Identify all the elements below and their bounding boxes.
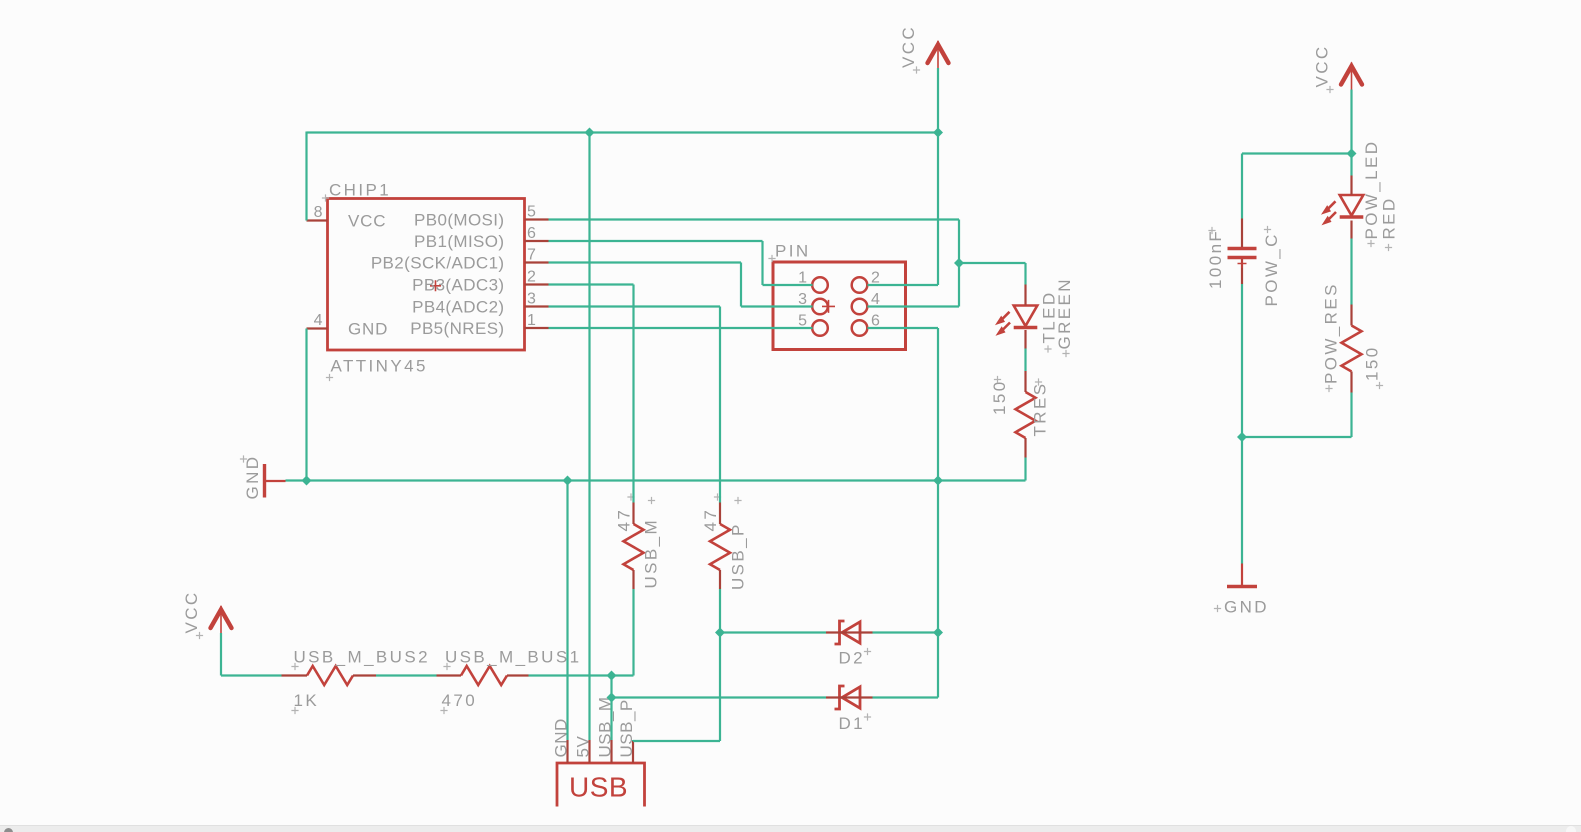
wire cap top green <box>1241 154 1243 219</box>
wire D2 row right <box>873 631 939 633</box>
cross GND left <box>240 455 247 462</box>
capacitor POW_C plates <box>1228 249 1257 258</box>
wire VCC top rail <box>307 131 939 133</box>
PIN origin cross <box>822 300 835 313</box>
svg-text:PB5(NRES): PB5(NRES) <box>410 319 504 338</box>
wire USB_M row to bus <box>529 674 634 676</box>
svg-text:USB_M_BUS2: USB_M_BUS2 <box>294 648 430 667</box>
cross D1 <box>864 713 871 720</box>
svg-text:1K: 1K <box>294 691 320 710</box>
chip origin cross <box>430 280 441 291</box>
svg-text:PB0(MOSI): PB0(MOSI) <box>414 211 505 230</box>
D2 leads <box>826 631 873 633</box>
junction 5V on VCC rail <box>585 128 595 138</box>
wire USB_P pin drop <box>632 740 634 741</box>
chip pin 1 stub <box>525 327 549 329</box>
wire LED branch down <box>1024 263 1026 285</box>
svg-text:POW_RES: POW_RES <box>1322 282 1341 384</box>
wire chip pin4 down to gnd rail <box>305 329 307 481</box>
wire VCC left to BUS2 <box>221 674 282 676</box>
junction USB GND on rail <box>563 476 573 486</box>
svg-text:150: 150 <box>990 379 1009 415</box>
wire TRES bottom green <box>1024 458 1026 481</box>
wire SCK corner down <box>740 263 742 307</box>
svg-text:D1: D1 <box>839 714 866 733</box>
wire D2 row left <box>720 631 826 633</box>
wire 47 res USB_P down <box>719 589 721 741</box>
svg-text:USB_P: USB_P <box>729 522 748 590</box>
wire VCC rail to chip pin8 <box>305 132 307 221</box>
wire ADC3 down to 47 res <box>632 285 634 503</box>
wire pin3 ADC2 horizontal <box>549 305 721 307</box>
diode D2 <box>835 621 861 644</box>
PIN pad circle 2 <box>852 277 868 293</box>
wire pin1 NRES to PIN5 <box>549 327 813 329</box>
wire pin5 MOSI horizontal <box>549 218 960 220</box>
svg-text:VCC: VCC <box>1313 44 1332 87</box>
wire VCC left arrow drop <box>220 633 222 676</box>
cross 47 USB_P <box>714 493 721 500</box>
svg-text:8: 8 <box>314 204 323 221</box>
resistor USB_P 47 <box>710 524 730 570</box>
svg-text:2: 2 <box>527 269 536 286</box>
chip pin 7 stub <box>525 261 549 263</box>
svg-text:CHIP1: CHIP1 <box>329 181 391 200</box>
diode D1 <box>835 686 861 709</box>
cross POW_C <box>1264 226 1271 233</box>
led POW_LED RED <box>1322 195 1363 224</box>
svg-text:TRES: TRES <box>1031 382 1050 437</box>
wire right rail bottom <box>1242 436 1352 438</box>
junction VCC right rail <box>1347 149 1357 159</box>
junction LED branch <box>954 258 964 268</box>
svg-text:PB4(ADC2): PB4(ADC2) <box>412 298 504 317</box>
wire cap bottom green <box>1241 284 1243 564</box>
wire POW_RES bottom green <box>1350 393 1352 438</box>
svg-text:3: 3 <box>527 291 536 308</box>
ic CHIP1 ATTINY45 body <box>328 199 525 351</box>
POW_RES top stub <box>1350 305 1352 326</box>
PIN pad circle 4 <box>852 299 868 315</box>
svg-text:D2: D2 <box>839 649 866 668</box>
junction chip GND on rail <box>302 476 312 486</box>
svg-text:VCC: VCC <box>182 590 201 633</box>
cross 470 <box>440 707 447 714</box>
bottom scrollbar strip <box>0 826 1581 832</box>
wire 5V vertical <box>588 133 590 741</box>
resistor TRES 150 <box>1016 392 1036 438</box>
cross POW_RES <box>1325 385 1332 392</box>
wire SCK into PIN3 <box>741 305 813 307</box>
wire VCC right arrow drop <box>1350 90 1352 154</box>
svg-text:ATTINY45: ATTINY45 <box>331 357 428 376</box>
wire POW_LED to POW_RES green <box>1350 239 1352 305</box>
svg-text:5: 5 <box>527 204 536 221</box>
svg-text:GND: GND <box>243 455 262 500</box>
chip pin 5 stub <box>525 218 549 220</box>
cross D2 <box>864 648 871 655</box>
svg-text:POW_LED: POW_LED <box>1362 140 1381 240</box>
cross RED <box>1385 244 1392 251</box>
cross USB_M res <box>648 497 655 504</box>
USB_M res top stub <box>632 503 634 525</box>
wire 47 res USB_M down <box>632 589 634 676</box>
svg-text:470: 470 <box>442 691 478 710</box>
svg-text:GREEN: GREEN <box>1055 277 1074 349</box>
svg-text:GND: GND <box>348 320 388 339</box>
USB pin USB_M stub <box>610 740 612 763</box>
svg-text:PB3(ADC3): PB3(ADC3) <box>412 276 504 295</box>
wire MISO corner down <box>761 241 763 285</box>
USB pin GND stub <box>566 740 568 763</box>
USB pin 5V stub <box>588 740 590 763</box>
junction USB_P D2 <box>715 628 725 638</box>
junction USB_M bus <box>607 671 617 681</box>
cross 100nF <box>1208 227 1215 234</box>
BUS2 left stub <box>282 674 308 676</box>
junction VCC arrow rail <box>933 128 943 138</box>
ground symbol (right) <box>1227 564 1257 587</box>
wire MISO into PIN1 <box>763 284 813 286</box>
svg-text:PIN: PIN <box>775 242 811 261</box>
origin cross PIN <box>768 255 775 262</box>
wire USB_M pin drop <box>610 676 612 741</box>
supply VCC arrow (bottom left) <box>211 606 232 633</box>
wire PIN2 to VCC <box>868 284 939 286</box>
svg-text:RED: RED <box>1380 196 1399 239</box>
TLED anode stub <box>1024 285 1026 306</box>
wire GND drop vertical <box>937 328 939 698</box>
wire USB_P over to pin <box>633 740 720 742</box>
chip pin 4 stub <box>307 327 328 329</box>
USB_M res bottom stub <box>632 570 634 589</box>
svg-text:150: 150 <box>1363 345 1382 381</box>
svg-text:VCC: VCC <box>899 25 918 68</box>
svg-text:100nF: 100nF <box>1206 229 1225 289</box>
svg-text:47: 47 <box>615 508 634 532</box>
POW_C bottom stub <box>1241 259 1243 284</box>
resistor USB_M_BUS1 470 <box>461 666 507 685</box>
cross VCC left <box>196 632 203 639</box>
svg-text:USB_M: USB_M <box>642 518 661 589</box>
wire D1 row right <box>873 696 939 698</box>
svg-text:6: 6 <box>527 225 536 242</box>
wire POW_LED top green <box>1350 154 1352 176</box>
supply VCC arrow (right) <box>1341 63 1362 90</box>
D1 leads <box>826 696 873 698</box>
USB_P res bottom stub <box>719 570 721 589</box>
cross VCC right <box>1326 86 1333 93</box>
BUS2 right stub <box>353 674 376 676</box>
wire PIN2 up to VCC rail <box>937 133 939 286</box>
PIN pad circle 6 <box>852 320 868 336</box>
svg-text:USB: USB <box>569 772 628 803</box>
wire PIN6 to GND drop <box>868 327 939 329</box>
TLED cathode stub <box>1024 330 1026 349</box>
chip pin 2 stub <box>525 283 549 285</box>
wire pin7 SCK horizontal <box>549 261 742 263</box>
cross 150 TRES <box>994 376 1001 383</box>
PIN pad circle 1 <box>812 277 828 293</box>
wire LED branch horizontal <box>959 262 1026 264</box>
BUS1 left stub <box>437 674 462 676</box>
POW_C origin cross <box>1238 259 1247 268</box>
svg-text:GND: GND <box>1224 598 1269 617</box>
junction USB_M D1 <box>607 693 617 703</box>
wire pin6 MISO horizontal <box>549 240 763 242</box>
svg-text:7: 7 <box>527 247 536 264</box>
POW_LED anode stub <box>1350 176 1352 196</box>
wire TLED top green <box>1024 349 1026 372</box>
cross USB_P res <box>734 497 741 504</box>
cross POW_LED <box>1367 240 1374 247</box>
svg-text:POW_C: POW_C <box>1262 232 1281 306</box>
svg-text:PB2(SCK/ADC1): PB2(SCK/ADC1) <box>371 254 505 273</box>
svg-text:USB_P: USB_P <box>617 699 636 757</box>
ground symbol (left) <box>265 464 286 498</box>
wire GND rail <box>286 479 1026 481</box>
resistor USB_M_BUS2 1K <box>307 666 353 685</box>
cross TRES <box>1035 378 1042 385</box>
supply VCC arrow (top middle) <box>928 41 949 68</box>
junction D2 GND drop <box>933 628 943 638</box>
resistor USB_M 47 <box>624 524 644 570</box>
wire ADC2 down to 47 res <box>719 307 721 503</box>
chip pin 6 stub <box>525 240 549 242</box>
svg-text:1: 1 <box>527 312 536 329</box>
cross USB_M_BUS1 <box>443 663 450 670</box>
wire USB GND pin drop <box>566 481 568 741</box>
cross TLED <box>1044 345 1051 352</box>
wire MOSI corner down <box>958 220 960 307</box>
TRES top stub <box>1024 371 1026 392</box>
USB pin USB_P stub <box>632 740 634 763</box>
cross 47 USB_M <box>627 493 634 500</box>
svg-text:4: 4 <box>314 312 323 329</box>
connector USB body <box>557 763 645 807</box>
svg-text:USB_M_BUS1: USB_M_BUS1 <box>445 648 581 667</box>
cross USB_M_BUS2 <box>291 663 298 670</box>
BUS1 right stub <box>507 674 529 676</box>
led TLED GREEN <box>996 306 1037 335</box>
resistor POW_RES 150 <box>1342 326 1362 372</box>
TRES bottom stub <box>1024 438 1026 458</box>
svg-text:PB1(MISO): PB1(MISO) <box>414 232 505 251</box>
origin cross ATTINY45 <box>326 374 333 381</box>
cross GND right <box>1214 605 1221 612</box>
POW_LED cathode stub <box>1350 221 1352 239</box>
POW_C top stub <box>1241 219 1243 248</box>
wire MOSI into PIN4 <box>868 305 960 307</box>
junction cap bottom rail <box>1237 432 1247 442</box>
svg-text:VCC: VCC <box>348 212 386 231</box>
cross GREEN <box>1062 350 1069 357</box>
connector PIN body <box>773 262 906 350</box>
svg-text:47: 47 <box>701 508 720 532</box>
wire D1 row left <box>612 696 827 698</box>
POW_RES bottom stub <box>1350 372 1352 393</box>
chip pin 8 stub <box>307 219 328 221</box>
origin cross CHIP1 <box>322 194 329 201</box>
USB_P res top stub <box>719 503 721 525</box>
wire VCC top arrow drop <box>937 68 939 133</box>
wire BUS2 to BUS1 <box>376 674 437 676</box>
cross 150 POW_RES <box>1376 382 1383 389</box>
cross VCC top <box>913 66 920 73</box>
chip pin 3 stub <box>525 305 549 307</box>
cross 1K <box>291 707 298 714</box>
PIN pad circle 5 <box>812 320 828 336</box>
junction PIN6 GND on rail <box>933 476 943 486</box>
PIN pad circle 3 <box>812 299 828 315</box>
wire right rail top <box>1242 152 1352 154</box>
wire pin2 ADC3 horizontal <box>549 283 634 285</box>
